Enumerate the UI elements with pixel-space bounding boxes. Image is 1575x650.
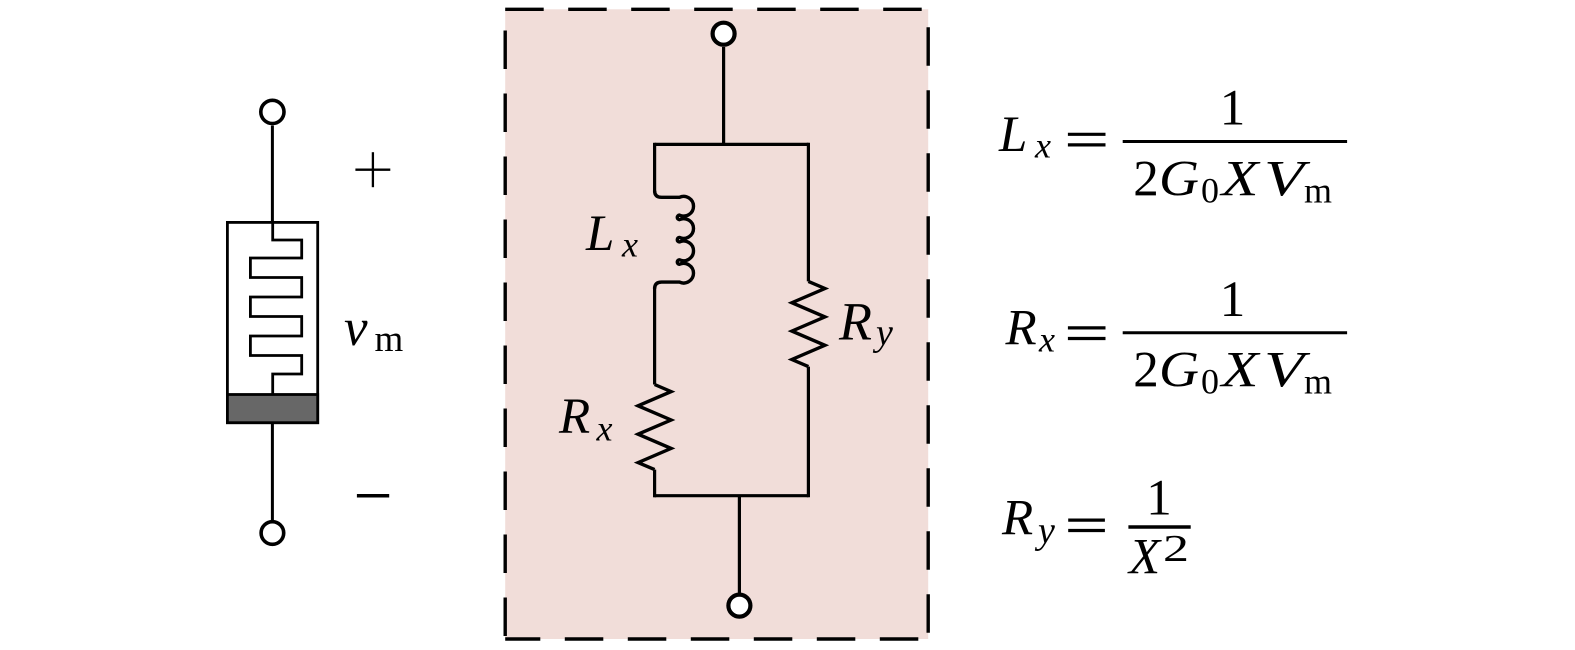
svg-text:R: R <box>1005 300 1037 356</box>
resistor Ry <box>792 281 825 366</box>
svg-text:m: m <box>1304 170 1332 210</box>
dashed border left edge <box>504 9 507 639</box>
terminal (equivalent bottom) <box>728 595 750 617</box>
dashed border right edge <box>927 9 930 639</box>
svg-text:x: x <box>596 409 613 449</box>
svg-text:X: X <box>1127 530 1162 586</box>
dashed border bottom edge <box>505 637 928 640</box>
svg-text:y: y <box>872 312 893 354</box>
wire (memristor bottom lead) <box>271 423 274 521</box>
memristor body box <box>227 222 317 422</box>
svg-text:R: R <box>558 389 590 445</box>
node: top rail <box>655 143 809 146</box>
node: bottom rail <box>655 494 809 497</box>
svg-text:L: L <box>585 206 614 262</box>
svg-text:G: G <box>1159 151 1199 207</box>
wire (bottom tap) <box>738 496 741 595</box>
svg-text:X: X <box>1219 151 1261 207</box>
svg-text:x: x <box>1038 320 1055 360</box>
svg-text:v: v <box>344 299 368 357</box>
minus sign <box>357 494 389 498</box>
resistor Rx <box>638 385 671 470</box>
wire (left branch upper) <box>653 143 656 192</box>
svg-text:y: y <box>1034 510 1055 552</box>
svg-text:x: x <box>1034 126 1051 166</box>
svg-text:G: G <box>1159 343 1199 399</box>
memristor doped-layer bar <box>227 395 317 423</box>
plus sign <box>355 152 390 187</box>
svg-text:X: X <box>1219 343 1261 399</box>
svg-text:0: 0 <box>1201 170 1219 210</box>
svg-text:L: L <box>998 107 1027 163</box>
svg-text:m: m <box>1304 362 1332 402</box>
equivalent-circuit box (pink fill) <box>505 9 928 639</box>
svg-text:1: 1 <box>1220 81 1246 137</box>
terminal (equivalent top) <box>713 23 735 45</box>
svg-text:x: x <box>621 225 638 265</box>
wire (left branch middle) <box>653 287 656 385</box>
svg-text:2: 2 <box>1163 528 1189 570</box>
inductor Lx <box>655 191 694 289</box>
svg-text:2: 2 <box>1133 151 1159 207</box>
svg-text:1: 1 <box>1146 471 1172 527</box>
svg-text:R: R <box>838 292 872 352</box>
terminal (memristor top) <box>261 100 284 123</box>
terminal (memristor bottom) <box>261 522 284 545</box>
dashed border top edge <box>505 8 928 11</box>
svg-text:m: m <box>375 319 404 360</box>
svg-text:0: 0 <box>1201 362 1219 402</box>
eq3 fraction bar <box>1128 525 1190 528</box>
wire (right branch upper) <box>807 143 810 282</box>
eq3 equals sign <box>1068 518 1105 521</box>
eq1 fraction bar <box>1123 140 1347 143</box>
wire (memristor top lead) <box>271 126 274 224</box>
wire (right branch lower) <box>807 367 810 498</box>
memristor meander <box>250 222 301 394</box>
svg-text:1: 1 <box>1220 272 1246 328</box>
svg-text:R: R <box>1001 491 1033 547</box>
wire (top lead) <box>722 47 725 144</box>
svg-text:2: 2 <box>1133 343 1159 399</box>
eq1 equals sign <box>1068 133 1106 136</box>
eq2 fraction bar <box>1123 331 1347 334</box>
wire (left branch lower) <box>653 470 656 498</box>
eq2 equals sign <box>1068 326 1106 329</box>
